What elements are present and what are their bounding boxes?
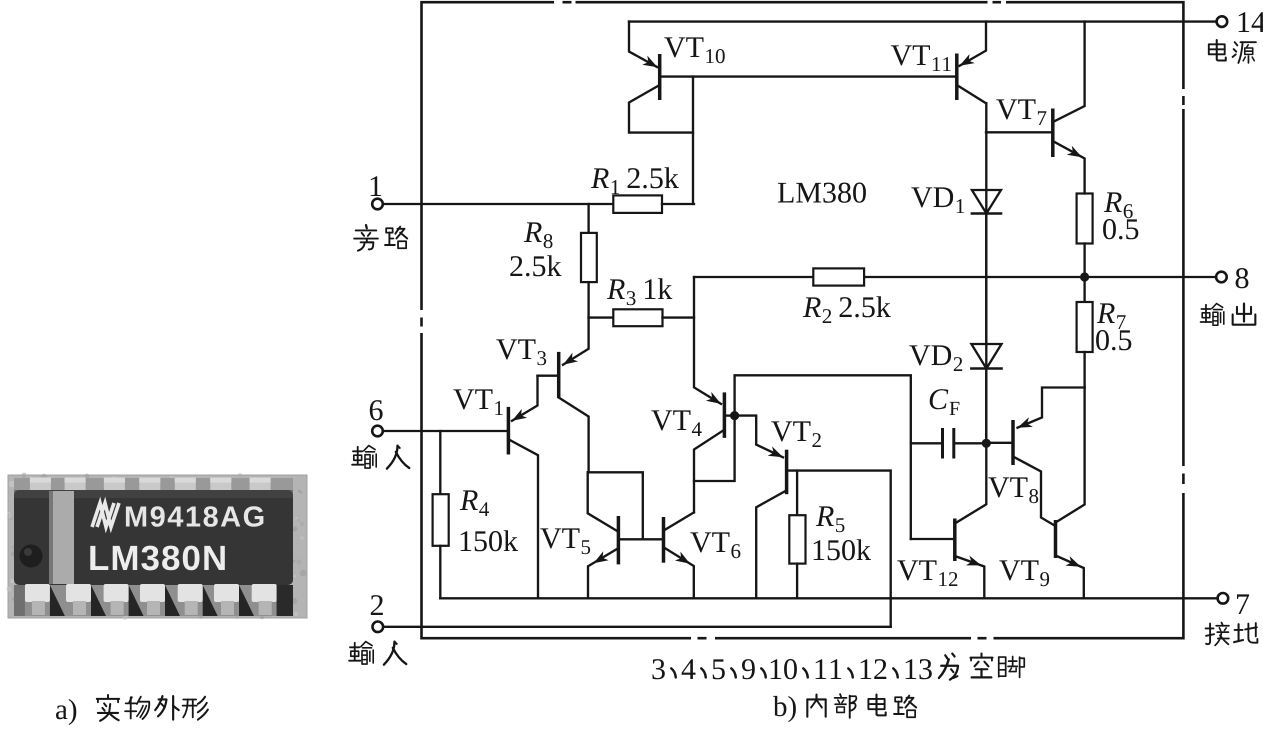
resistor R4 xyxy=(433,431,449,598)
wire node A down link xyxy=(694,416,735,481)
wire node A to VT12 base xyxy=(735,375,911,539)
transistor VT5 xyxy=(588,472,619,598)
wire top supply rail xyxy=(629,20,1216,22)
pin 6 label xyxy=(370,400,383,420)
label CF xyxy=(930,389,960,415)
wire VT11 collector through VD1/VD2 to node B xyxy=(985,103,987,443)
wire VT10 base-collector riser to R1 xyxy=(692,77,694,204)
wire pin1 bypass to R1/R8 xyxy=(383,203,613,205)
caption a) photo xyxy=(56,695,208,725)
label VT2 xyxy=(771,421,821,447)
label VT10 xyxy=(664,37,724,63)
pin 7 label xyxy=(1237,594,1249,614)
wire output line xyxy=(694,276,1216,278)
label R1 2.5k xyxy=(591,167,679,194)
transistor VT4 xyxy=(694,277,735,513)
resistor R7 xyxy=(1077,302,1093,352)
resistor R8 xyxy=(581,204,597,318)
transistor VT6 xyxy=(664,513,694,599)
transistor VT3 xyxy=(538,318,589,473)
pin 1 terminal xyxy=(372,199,383,210)
label VT11 xyxy=(891,45,951,71)
wire VT5/VT6 base link xyxy=(618,538,663,540)
pin 8 label xyxy=(1236,268,1249,288)
label VD1 xyxy=(911,187,964,213)
transistor VT8 xyxy=(986,352,1084,526)
pin 2 name input xyxy=(349,642,406,665)
pin 1 label xyxy=(371,176,382,196)
wire pin2 input to VT2 base riser xyxy=(383,626,891,628)
transistor VT1 xyxy=(383,376,538,599)
label R3 1k xyxy=(607,278,673,305)
pin 7 terminal xyxy=(1218,593,1229,604)
label VT6 xyxy=(690,532,740,558)
note unconnected pins 3,4,5,9,10,11,12,13 xyxy=(652,654,1024,680)
transistor VT10 xyxy=(629,22,693,133)
transistor VT7 xyxy=(986,22,1085,194)
node A junction VT4 base xyxy=(730,411,739,420)
node B junction CF/VD2/VT12/VT8 xyxy=(982,439,991,448)
pin 14 name power xyxy=(1209,40,1256,63)
IC package outline border (dash-dot) xyxy=(419,0,1186,641)
pin 14 terminal xyxy=(1217,16,1228,27)
label VT8 xyxy=(988,477,1038,503)
resistor R5 xyxy=(789,471,805,599)
label R4 150k xyxy=(460,490,518,551)
label R6 0.5 xyxy=(1103,192,1138,239)
diode VD2 xyxy=(971,344,1001,369)
label R8 2.5k xyxy=(510,222,561,276)
wire VD2 to node CF xyxy=(985,369,987,444)
label R7 0.5 xyxy=(1096,303,1131,350)
resistor R3 xyxy=(589,309,694,326)
pin 7 name ground xyxy=(1206,623,1258,646)
transistor VT12 xyxy=(911,443,987,598)
resistor R1 xyxy=(613,195,694,213)
resistor R2 xyxy=(813,268,864,285)
resistor R6 xyxy=(1077,194,1093,303)
pin 1 name bypass xyxy=(354,225,407,251)
label VT3 xyxy=(496,339,546,365)
label VT1 xyxy=(453,389,502,415)
pin 2 label xyxy=(371,595,383,615)
caption b) internal circuit xyxy=(773,694,916,722)
pin 14 label xyxy=(1239,12,1263,32)
wire VD1 to VD2 xyxy=(985,214,987,345)
node C junction output R6/R7 xyxy=(1080,272,1089,281)
capacitor CF xyxy=(911,428,987,459)
wire ground rail xyxy=(440,597,1217,599)
pin 8 name output xyxy=(1201,304,1256,326)
label VT7 xyxy=(996,99,1046,125)
wire VT10/VT11 base link xyxy=(661,75,956,77)
label R2 2.5k xyxy=(803,296,891,323)
label LM380 xyxy=(778,183,866,203)
pin 8 terminal xyxy=(1216,272,1227,283)
label VT12 xyxy=(897,560,957,586)
label VT5 xyxy=(540,528,590,554)
transistor VT9 xyxy=(1056,388,1085,599)
label VT4 xyxy=(651,410,701,436)
label VT9 xyxy=(999,560,1049,586)
label VD2 xyxy=(909,345,962,371)
photo of LM380N IC package xyxy=(6,473,307,620)
diode VD1 xyxy=(972,190,1001,214)
pin 6 name input xyxy=(352,446,409,469)
wire VT5 diode link xyxy=(588,472,643,539)
transistor VT2 xyxy=(735,416,891,627)
label R5 150k xyxy=(814,506,871,560)
pin 6 terminal xyxy=(372,426,383,437)
pin 2 terminal xyxy=(373,622,384,633)
transistor VT11 xyxy=(957,22,986,104)
